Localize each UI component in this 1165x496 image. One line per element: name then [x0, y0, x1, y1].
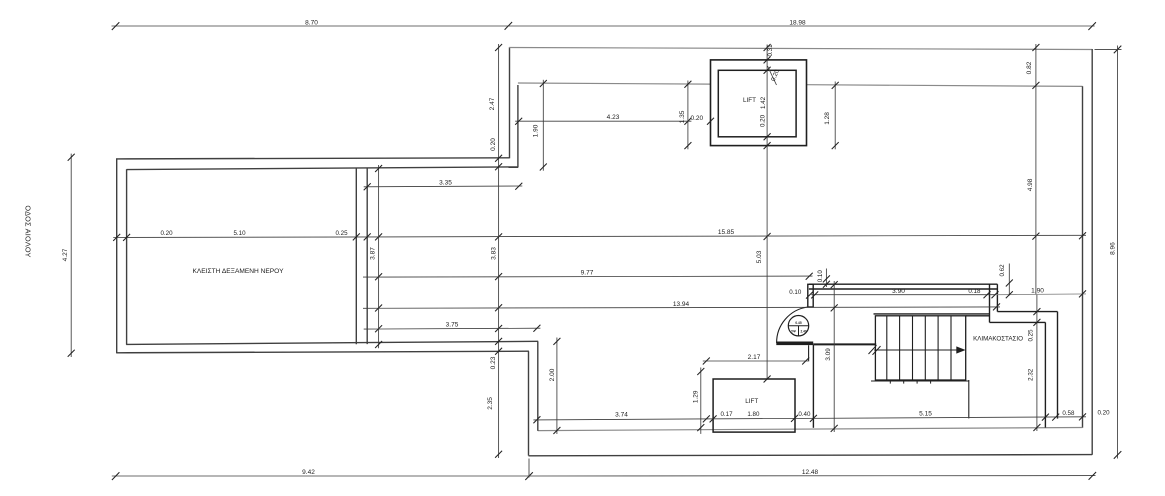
dimension 3.75 — [364, 321, 541, 331]
svg-text:0.58: 0.58 — [1062, 410, 1075, 417]
wall stair east inner vertical — [1044, 322, 1046, 427]
wall tank inner top — [127, 167, 519, 170]
svg-text:3.09: 3.09 — [825, 348, 832, 361]
dimension 2.47 / 0.20 / 3.83 / 0.23 / 2.35 chain extension line — [487, 44, 502, 458]
dimension 0.62 — [999, 264, 1013, 299]
svg-text:LIFT: LIFT — [745, 398, 758, 405]
street label ΟΔΟΣ ΑΙΟΛΟΥ — [24, 205, 33, 257]
svg-text:9.42: 9.42 — [302, 469, 315, 476]
dimension 8.70 top — [112, 19, 513, 30]
wall top inner boundary east segment — [807, 85, 1083, 87]
dimension 4.23 — [515, 114, 691, 125]
wall step at stair NE outer — [997, 311, 1057, 313]
dimension 3.35 — [364, 179, 523, 190]
wall tank east outer — [366, 168, 368, 344]
corridor east wall west line — [989, 284, 991, 322]
svg-text:15.85: 15.85 — [718, 229, 735, 236]
svg-text:0.20: 0.20 — [490, 138, 497, 151]
wall top inner boundary west segment — [518, 83, 711, 84]
svg-text:3.90: 3.90 — [892, 288, 905, 295]
wall step outer vertical — [509, 47, 511, 158]
wall right outer boundary — [1091, 49, 1093, 455]
wall lift lobby east vertical — [812, 345, 814, 428]
svg-text:13.94: 13.94 — [673, 301, 690, 308]
lift U1 (top) outer box — [711, 60, 807, 146]
svg-text:2.40: 2.40 — [800, 329, 806, 333]
wall bottom outer boundary — [529, 455, 1093, 456]
lift U2 (bottom) box — [713, 379, 795, 432]
dimension 9.96 right — [1095, 46, 1122, 459]
svg-text:0.82: 0.82 — [1026, 61, 1033, 74]
staircase bottom landing line — [871, 380, 969, 382]
dimension 2.17 — [703, 354, 809, 365]
door wall bar (section fill) — [776, 342, 813, 346]
lift U1 (top) inner box — [718, 70, 796, 137]
wall corridor south segment door-to-stair — [813, 343, 876, 345]
staircase tread stubs — [890, 381, 930, 384]
dimension 18.98 top — [508, 19, 1096, 30]
svg-text:0.17: 0.17 — [720, 411, 733, 418]
svg-text:1.35: 1.35 — [679, 110, 686, 123]
dimension 3.87 extension — [370, 165, 383, 348]
staircase lower right vertical — [968, 380, 970, 418]
svg-text:18.98: 18.98 — [789, 19, 806, 26]
svg-text:2.32: 2.32 — [1027, 368, 1034, 381]
svg-text:0.10: 0.10 — [817, 270, 824, 283]
wall strip outer bottom — [116, 351, 529, 353]
dimension 9.77 — [363, 270, 813, 280]
svg-text:5.03: 5.03 — [756, 250, 763, 263]
wall strip inner bottom — [126, 341, 538, 344]
svg-text:0.31: 0.31 — [767, 44, 774, 57]
svg-text:3.75: 3.75 — [446, 321, 459, 328]
svg-text:8.70: 8.70 — [305, 19, 318, 26]
door jamb — [808, 284, 813, 307]
wall bottom inner boundary — [538, 428, 1083, 431]
svg-text:4.23: 4.23 — [607, 114, 620, 121]
corridor north wall lower line — [809, 288, 998, 290]
svg-text:1.28: 1.28 — [824, 112, 831, 125]
level marker circle — [788, 316, 808, 336]
dimension 2.00 — [549, 338, 561, 435]
svg-text:1.42: 1.42 — [760, 96, 767, 109]
dimension 1.28 — [824, 82, 839, 150]
wall tank outer left — [116, 158, 118, 353]
svg-text:1.29: 1.29 — [693, 390, 700, 403]
dimension 0.10 vertical near corridor west — [817, 269, 830, 288]
svg-text:LIFT: LIFT — [743, 97, 756, 104]
dimension 9.42 bottom — [112, 459, 533, 481]
dimension 13.94 — [363, 301, 1000, 311]
dimension corridor 3.90 0.18 1.90 — [806, 288, 1086, 299]
svg-text:3.74: 3.74 — [615, 411, 628, 418]
svg-text:2.35: 2.35 — [487, 397, 494, 410]
staircase box — [875, 316, 965, 380]
dimension 3.09 — [825, 281, 838, 432]
svg-text:4.98: 4.98 — [1027, 178, 1034, 191]
dimension 1.90 upper-left — [533, 80, 547, 171]
svg-text:0.25: 0.25 — [335, 230, 348, 237]
wall step at stair NE inner — [990, 321, 1046, 323]
wall right inner boundary — [1082, 86, 1084, 428]
svg-text:1.90: 1.90 — [533, 124, 540, 137]
wall stair north lower line east segment — [966, 315, 990, 317]
wall lower-left inner vertical — [537, 341, 539, 430]
svg-text:3.83: 3.83 — [491, 247, 498, 260]
svg-text:1.90: 1.90 — [1031, 288, 1044, 295]
svg-text:12.48: 12.48 — [802, 469, 819, 476]
svg-text:2.00: 2.00 — [549, 368, 556, 381]
wall tank outer top — [116, 158, 509, 159]
wall stair east outer vertical — [1057, 312, 1059, 419]
svg-text:0.10: 0.10 — [789, 289, 802, 296]
svg-text:0.20: 0.20 — [690, 115, 703, 122]
dimension 0.20 label left of lift — [690, 115, 714, 125]
svg-text:5.10: 5.10 — [233, 230, 246, 237]
svg-text:9.77: 9.77 — [581, 270, 594, 277]
lift U2 label — [745, 398, 758, 405]
svg-text:0.18: 0.18 — [968, 288, 981, 295]
svg-text:2.47: 2.47 — [489, 97, 496, 110]
staircase treads — [887, 316, 951, 380]
svg-text:2.17: 2.17 — [748, 354, 761, 361]
wall tank east inner — [355, 168, 357, 344]
dimension 1.29 — [693, 368, 705, 434]
dimension chain through top lift 0.31 0.20 1.42 0.20 5.03 — [756, 44, 781, 383]
dimension 12.48 bottom — [529, 469, 1096, 480]
corridor north wall upper line — [809, 283, 998, 285]
svg-text:0.25: 0.25 — [1027, 329, 1034, 342]
svg-text:ΚΛΕΙΣΤΗ ΔΕΞΑΜΕΝΗ ΝΕΡΟΥ: ΚΛΕΙΣΤΗ ΔΕΞΑΜΕΝΗ ΝΕΡΟΥ — [193, 268, 285, 275]
staircase label — [973, 335, 1023, 342]
wall tank inner left — [126, 169, 128, 344]
lift U1 label — [743, 97, 756, 104]
svg-text:ΟΔΟΣ ΑΙΟΛΟΥ: ΟΔΟΣ ΑΙΟΛΟΥ — [24, 205, 33, 257]
dimension 0.25 / 2.32 extension — [1027, 295, 1040, 431]
wall lower-left outer vertical — [528, 351, 530, 455]
svg-text:8.96: 8.96 — [1110, 242, 1117, 255]
door swing arc — [777, 307, 808, 343]
svg-text:4.27: 4.27 — [62, 248, 69, 261]
svg-text:3.35: 3.35 — [439, 179, 452, 186]
dimension 1.35 — [679, 81, 691, 150]
svg-text:0.40: 0.40 — [798, 411, 811, 418]
dimension 15.85 long line with tank sub-dims 0.20 5.10 0.25 — [113, 229, 1086, 241]
staircase direction arrow — [874, 346, 965, 353]
svg-text:ΚΛΙΜΑΚΟΣΤΑΣΙΟ: ΚΛΙΜΑΚΟΣΤΑΣΙΟ — [973, 335, 1023, 342]
dimension 0.10 label corridor — [789, 289, 802, 296]
wall step inner vertical — [517, 85, 519, 167]
dimension 4.27 left — [62, 154, 75, 357]
staircase break marks — [869, 345, 881, 355]
svg-text:0.20: 0.20 — [1097, 409, 1110, 416]
wall lift lobby east inner stub — [808, 345, 810, 361]
svg-text:0.20: 0.20 — [160, 230, 173, 237]
room label water tank — [193, 268, 285, 275]
svg-text:1.80: 1.80 — [747, 411, 760, 418]
svg-text:0.20: 0.20 — [760, 114, 767, 127]
wall top outer boundary — [509, 48, 1092, 50]
svg-text:0.45: 0.45 — [795, 321, 801, 325]
svg-text:0.23: 0.23 — [490, 356, 497, 369]
dimension 0.82 / 4.98 extension — [1026, 44, 1039, 295]
wall stair north upper line — [874, 313, 990, 315]
svg-text:ΥΨ: ΥΨ — [791, 329, 796, 333]
svg-text:3.87: 3.87 — [370, 247, 377, 260]
dimension bottom interior 3.74 0.17 1.80 0.40 5.15 0.58 0.20 — [533, 409, 1110, 423]
svg-text:5.15: 5.15 — [919, 411, 932, 418]
svg-text:0.62: 0.62 — [999, 264, 1006, 277]
corridor east wall east line — [996, 284, 998, 311]
